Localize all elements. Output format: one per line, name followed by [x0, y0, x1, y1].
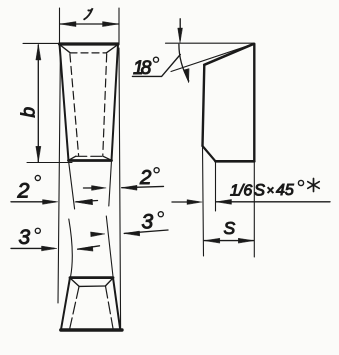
l dimension line	[60, 23, 119, 25]
svg-text:3: 3	[142, 211, 154, 234]
right side edge extension	[109, 161, 112, 207]
svg-text:1/6: 1/6	[230, 183, 252, 200]
right edge extension line	[253, 161, 255, 257]
bottom-right corner diagonal	[103, 156, 112, 160]
left 3deg edge extension line	[69, 219, 72, 277]
svg-text:S: S	[224, 218, 236, 238]
side view left edge (thick)	[203, 65, 205, 146]
plate right edge	[112, 44, 119, 161]
lower back-face left edge (broken)	[70, 287, 79, 329]
svg-text:45: 45	[276, 182, 294, 199]
chamfer corner extension line	[215, 161, 217, 211]
right 3deg edge extension line	[106, 216, 113, 277]
left 3deg tail right with arrow	[78, 246, 100, 249]
vertical pointer line	[179, 19, 181, 40]
horizontal reference line	[166, 42, 254, 44]
S arrowhead left	[204, 238, 220, 243]
plate top edge (thick)	[60, 42, 119, 45]
back-face bottom edge (thin, broken)	[76, 155, 103, 157]
S arrowhead right	[238, 238, 254, 243]
right vertical reference line	[119, 48, 121, 329]
lower back-face top edge (thin)	[79, 285, 106, 287]
arc arrowhead	[184, 69, 189, 83]
bottom-left corner diagonal	[69, 156, 76, 160]
pointer arrowhead down	[178, 28, 183, 43]
l arrowhead left	[60, 22, 76, 27]
lower plate top edge (thick)	[70, 276, 113, 279]
asterisk footnote mark	[308, 179, 319, 192]
lower plate right edge	[113, 278, 120, 330]
right 3deg tail left with arrow	[93, 233, 101, 235]
top-right corner chamfer diagonal	[107, 45, 118, 53]
18deg leader polyline	[132, 55, 180, 77]
b top extension line	[23, 42, 59, 44]
chamfer dim tail right with arrow	[216, 201, 330, 203]
b arrowhead bottom	[36, 146, 41, 162]
l arrowhead right	[103, 22, 119, 27]
svg-text:b: b	[19, 107, 40, 118]
l extension line right	[118, 8, 120, 44]
plate left edge	[60, 44, 69, 161]
lower plate bottom edge (thick)	[61, 328, 122, 331]
left 2deg dimension tail left with arrow	[11, 201, 55, 203]
chamfer dim tail left with arrow	[172, 201, 198, 203]
S dimension line	[204, 240, 254, 242]
right 3deg tail right with arrow	[124, 230, 168, 233]
plate bottom edge (thick)	[69, 159, 112, 162]
hidden back-face left edge (dashed)	[70, 54, 79, 156]
left vertical reference line	[58, 50, 60, 303]
svg-text:S: S	[254, 182, 265, 200]
side view right edge (thick)	[253, 44, 255, 162]
side view top face 18deg (thick)	[204, 44, 254, 65]
right 2deg tail left with arrow	[84, 187, 102, 189]
left side edge extension	[69, 161, 75, 210]
lower top-left corner diagonal	[70, 278, 79, 286]
side view bottom edge (thick)	[216, 160, 255, 163]
hidden back-face top edge (dashed)	[70, 52, 107, 54]
lower top-right corner diagonal	[106, 278, 114, 286]
svg-text:2: 2	[139, 166, 152, 189]
l extension line left	[59, 8, 61, 44]
b dimension line	[37, 45, 39, 162]
side view bottom chamfer (thick)	[203, 146, 216, 161]
angle arc	[179, 44, 189, 81]
top-left corner chamfer diagonal	[60, 45, 71, 53]
left 2deg dimension tail right with arrow	[76, 201, 98, 202]
right 2deg tail right with arrow	[122, 186, 164, 187]
left edge extension line	[203, 146, 204, 256]
svg-text:×: ×	[267, 183, 275, 198]
18deg slant ray	[171, 44, 254, 72]
left 3deg tail left with arrow	[11, 247, 54, 249]
label l (cursive)	[84, 8, 92, 19]
svg-text:2: 2	[17, 179, 30, 203]
b arrowhead top	[36, 44, 41, 60]
lower plate left edge	[61, 278, 70, 330]
hidden back-face right edge (dashed)	[103, 54, 107, 156]
svg-text:3: 3	[19, 226, 31, 249]
svg-text:8: 8	[141, 58, 152, 79]
lower back-face right edge (broken)	[106, 286, 114, 328]
b bottom extension line	[27, 162, 72, 164]
